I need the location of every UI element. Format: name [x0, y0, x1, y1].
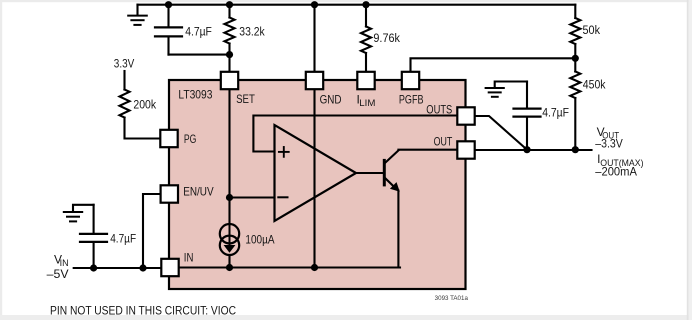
svg-text:OUTS: OUTS: [426, 102, 452, 116]
wire inverting input: [230, 196, 275, 198]
pin SET: [221, 72, 238, 89]
pin PGFB: [402, 72, 419, 89]
wire SET internal riser: [228, 90, 230, 225]
wire current source to bottom rail: [228, 255, 230, 268]
wire OUTS sense to non-inverting input: [253, 116, 457, 152]
node SET (C1-R1 junction): [226, 51, 233, 58]
svg-text:9.76k: 9.76k: [373, 31, 400, 45]
svg-text:450k: 450k: [583, 78, 606, 92]
resistor R3 50k: [570, 5, 580, 59]
capacitor C2 4.7uF branch: [80, 205, 107, 268]
pin OUT: [457, 141, 474, 158]
node SET riser / inverting input: [226, 194, 233, 201]
IC pins: [160, 72, 474, 276]
wire GND pin riser: [313, 5, 315, 72]
minus symbol: [278, 196, 287, 198]
ground G1 (top left): [128, 5, 147, 25]
pin ILIM: [357, 72, 374, 89]
svg-text:EN/UV: EN/UV: [183, 185, 213, 199]
op-amp U1a error amplifier: [275, 125, 357, 221]
svg-text:100µA: 100µA: [245, 232, 275, 246]
svg-text:–5V: –5V: [47, 267, 69, 281]
svg-text:LT3093: LT3093: [178, 88, 212, 102]
wire op-amp output to base: [356, 172, 383, 174]
plus symbol: [279, 147, 289, 157]
svg-text:200k: 200k: [133, 97, 156, 111]
wire GND internal riser: [313, 90, 315, 268]
node VIN / C2: [90, 264, 97, 271]
node output / C3: [523, 146, 530, 153]
svg-text:OUT: OUT: [434, 135, 453, 149]
wire collector to OUT pin: [398, 149, 457, 151]
svg-text:4.7µF: 4.7µF: [110, 232, 136, 246]
svg-text:4.7µF: 4.7µF: [185, 24, 212, 38]
resistor R1 33.2k: [225, 5, 235, 55]
resistor R4 450k: [570, 58, 580, 149]
node output / R4: [572, 146, 579, 153]
current source I1 100uA: [220, 224, 239, 255]
capacitor C3 4.7uF branch: [514, 82, 541, 150]
svg-text:GND: GND: [320, 92, 342, 106]
wire internal bottom rail: [179, 266, 401, 268]
svg-text:3.3V: 3.3V: [114, 56, 135, 70]
node top rail / C1: [165, 1, 172, 8]
svg-text:3093 TA01a: 3093 TA01a: [435, 296, 469, 302]
svg-text:SET: SET: [236, 92, 255, 106]
pin OUTS: [457, 107, 474, 124]
svg-text:–200mA: –200mA: [595, 165, 637, 179]
wire emitter to bottom rail: [397, 191, 399, 268]
svg-text:LIM: LIM: [359, 98, 375, 108]
node top rail / R2: [362, 1, 369, 8]
ground G2 (input cap): [64, 205, 94, 222]
svg-text:PGFB: PGFB: [399, 92, 424, 106]
wire 3.3V source to R5: [123, 71, 125, 90]
svg-text:50k: 50k: [583, 23, 601, 37]
wire C1 bottom to R1: [169, 54, 230, 56]
node VIN / EN riser: [139, 264, 146, 271]
svg-text:PIN NOT USED IN THIS CIRCUIT:: PIN NOT USED IN THIS CIRCUIT: VIOC: [50, 304, 236, 318]
wire R5 to PG pin: [125, 118, 161, 139]
pin EN/UV: [161, 185, 178, 202]
wire EN/UV to input node: [143, 194, 161, 268]
wire VIN input: [74, 267, 162, 269]
svg-text:4.7µF: 4.7µF: [542, 106, 569, 120]
wire OUT external: [475, 149, 592, 151]
transistor Q1: [384, 151, 400, 192]
pin PG: [160, 130, 177, 147]
ground G3 (output cap): [486, 82, 527, 97]
node GND riser / bottom rail: [311, 264, 318, 271]
wire R1 bottom to SET pin: [228, 55, 230, 72]
IC U1 LT3093 body: [169, 80, 466, 289]
svg-text:33.2k: 33.2k: [239, 24, 265, 38]
pin IN: [161, 259, 178, 276]
wire top rail: [138, 4, 576, 6]
pin GND: [306, 72, 323, 89]
svg-text:PG: PG: [184, 132, 197, 146]
node top rail / R1: [226, 1, 233, 8]
svg-text:IN: IN: [184, 251, 194, 265]
wire PGFB to divider node: [411, 58, 576, 71]
resistor R5 200k: [120, 90, 130, 118]
svg-text:–3.3V: –3.3V: [595, 136, 623, 150]
resistor R2 9.76k: [361, 5, 371, 72]
node current source / bottom rail: [226, 264, 233, 271]
wire OUTS external diagonal: [475, 116, 527, 150]
node divider (50k/450k/PGFB): [572, 55, 579, 62]
node top rail / GND riser: [311, 1, 318, 8]
capacitor C1 4.7uF branch: [155, 5, 182, 55]
